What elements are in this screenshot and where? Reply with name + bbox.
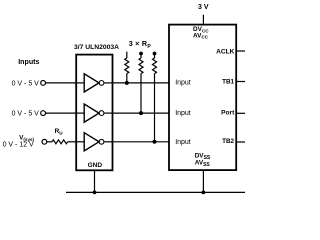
node input terminal 3 Vsys (42, 139, 47, 144)
ground rail (66, 191, 245, 193)
svg-text:Input: Input (175, 80, 191, 87)
svg-text:GND: GND (88, 162, 103, 169)
svg-text:3/7 ULN2003A: 3/7 ULN2003A (74, 44, 119, 51)
junction GND to rail (93, 191, 97, 195)
junction RP2 to row2 (139, 111, 143, 115)
resistor RP2 (139, 52, 143, 114)
svg-text:Port: Port (221, 109, 235, 116)
wire input2 inside driver (76, 112, 84, 114)
driver U1 ULN2003A box (76, 55, 112, 171)
junction VSS to rail (202, 191, 206, 195)
svg-text:Input: Input (175, 139, 191, 146)
svg-text:0 V - 5 V: 0 V - 5 V (12, 111, 40, 118)
svg-text:Input: Input (175, 110, 191, 117)
wire driver out1 to MCU Input1 (113, 82, 170, 84)
wire MCU VSS down (202, 170, 204, 192)
MCU U2 box (169, 25, 236, 171)
junction RP1 to row1 (125, 81, 129, 85)
inverter A3 (84, 133, 112, 151)
svg-text:0 V - 5 V: 0 V - 5 V (12, 80, 40, 87)
wire driver out3 to MCU Input3 (113, 141, 170, 143)
wire 3V to MCU top (202, 15, 204, 25)
wire TB1 stub (236, 81, 245, 83)
wire driver GND down (94, 170, 96, 192)
svg-text:ACLK: ACLK (216, 49, 235, 56)
resistor RP1 (125, 52, 129, 83)
resistor RU (47, 140, 76, 144)
wire driver out2 to MCU Input2 (113, 112, 170, 114)
wire input2 to driver (46, 112, 77, 114)
svg-text:TB1: TB1 (222, 78, 234, 85)
wire TB2 stub (236, 141, 245, 143)
wire input1 inside driver (76, 82, 84, 84)
svg-text:Inputs: Inputs (18, 58, 39, 66)
wire Port stub (236, 112, 245, 114)
inverter A1 (84, 74, 112, 92)
svg-text:0 V - 12 V: 0 V - 12 V (3, 141, 34, 148)
svg-text:TB2: TB2 (222, 138, 234, 145)
node input terminal 1 (41, 81, 46, 86)
wire input1 to driver (46, 82, 77, 84)
inverter A2 (84, 104, 112, 122)
node input terminal 2 (41, 111, 46, 116)
svg-text:3 V: 3 V (198, 4, 209, 11)
wire ACLK stub (236, 50, 245, 52)
junction RP3 to row3 (153, 140, 157, 144)
wire input3 inside driver (76, 141, 84, 143)
resistor RP3 (153, 52, 157, 142)
